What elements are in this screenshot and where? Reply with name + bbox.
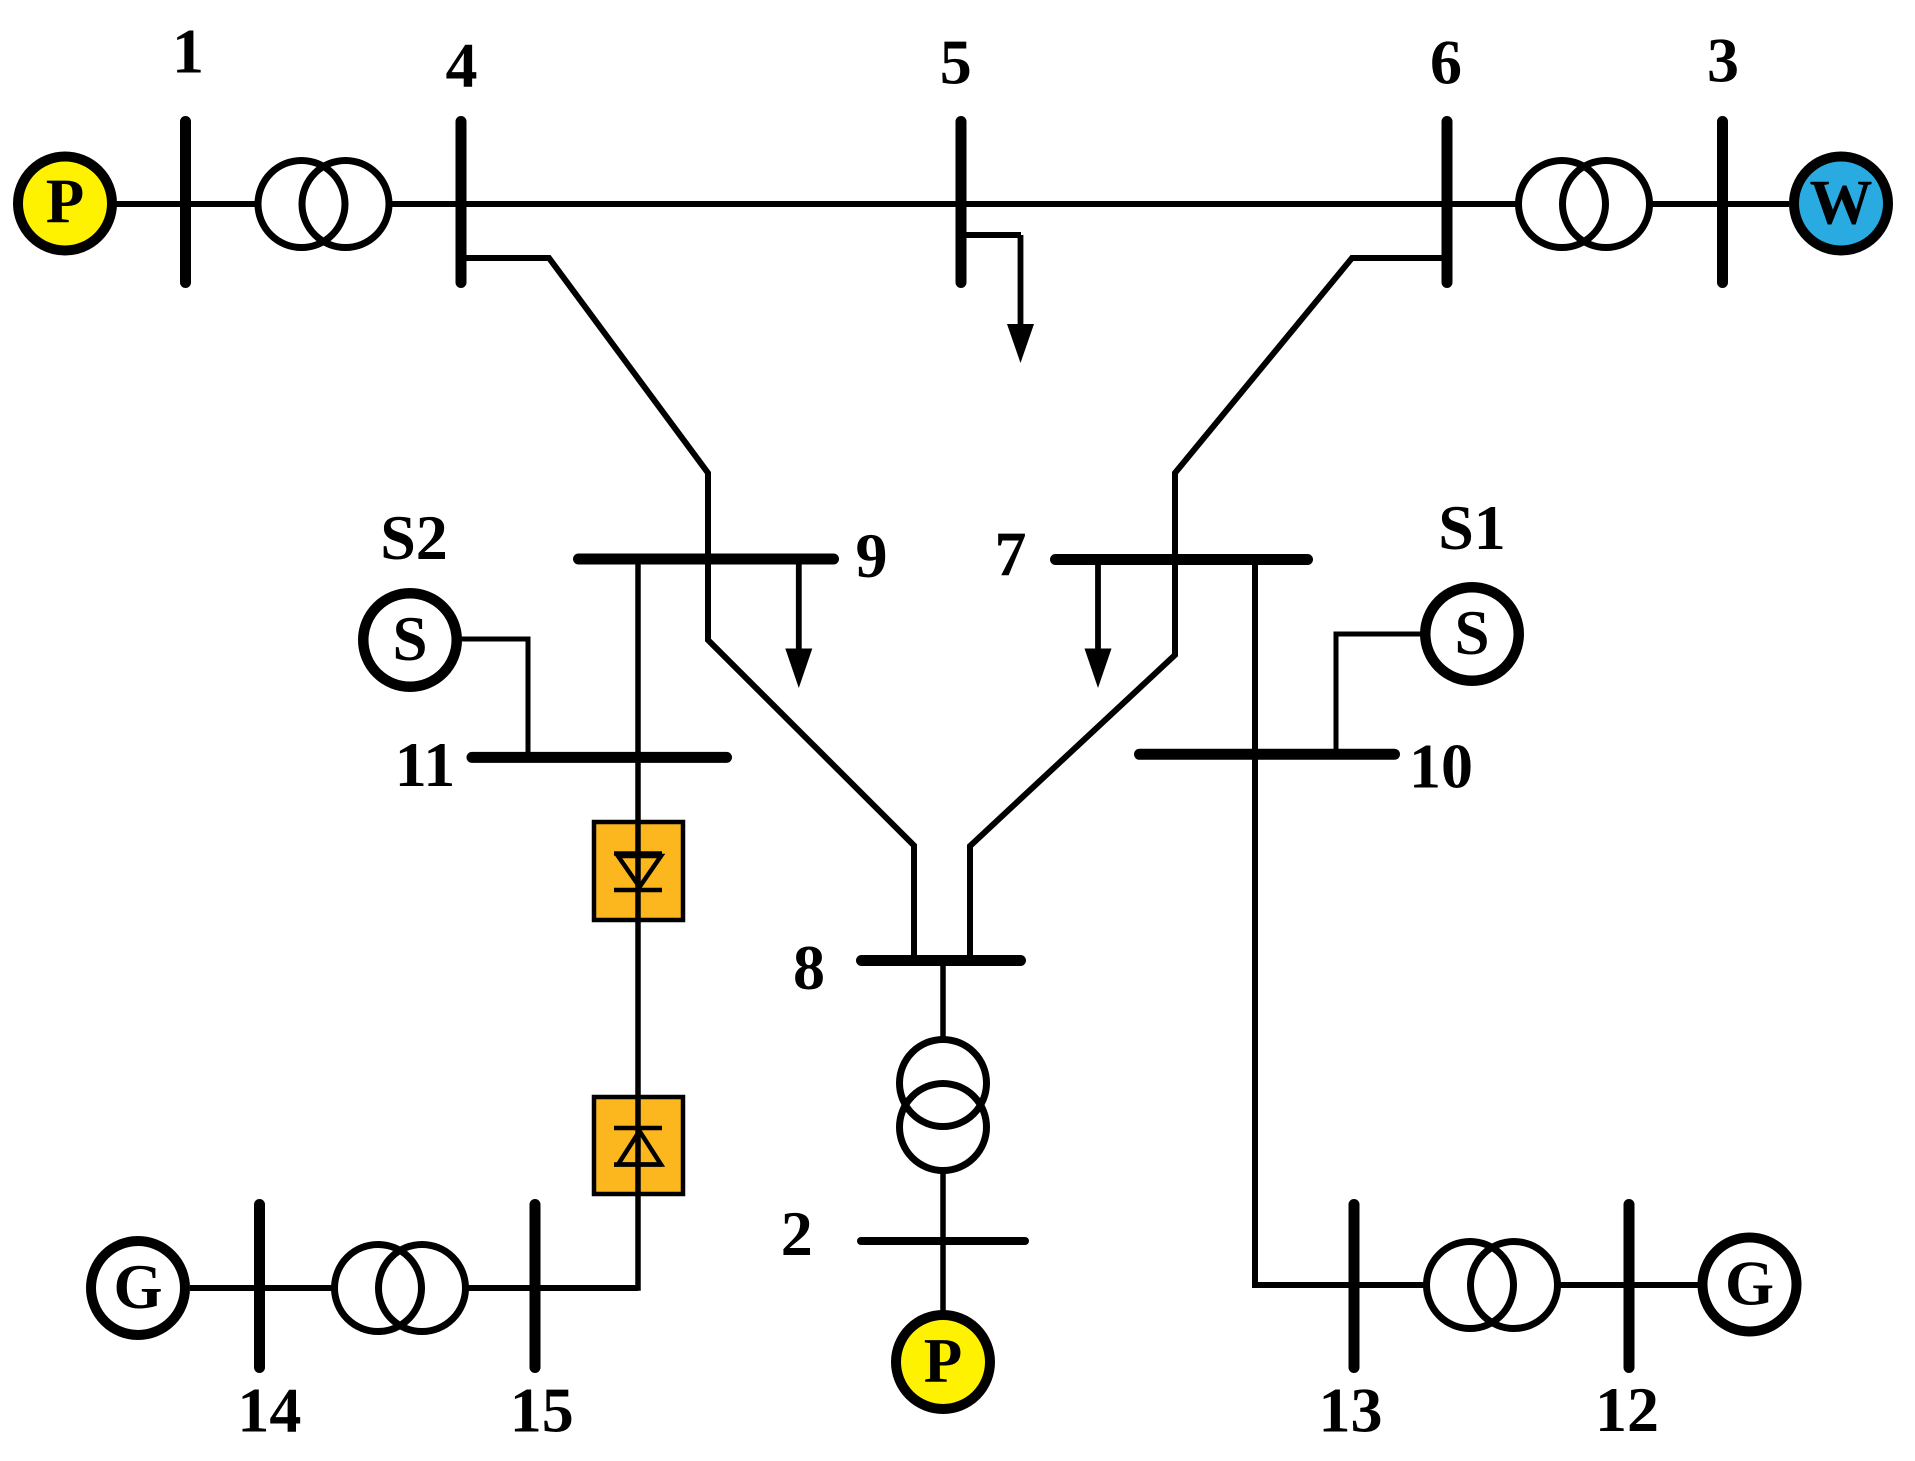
wire bottom-left G-14-15-corner	[190, 1285, 638, 1291]
wire S2 to bus11	[456, 639, 528, 757]
orange converter box 1 (inverter, arrow down)	[594, 822, 683, 920]
wire line 6-7: jog from bus6, diagonal to bus7, vertical through bus7, diagonal to bus8	[970, 258, 1447, 958]
svg-text:14: 14	[237, 1375, 301, 1446]
orange converter box 2 (rectifier, arrow up)	[594, 1097, 683, 1194]
bus 13	[1349, 1205, 1360, 1368]
bus 8	[862, 955, 1021, 966]
bus 11	[472, 752, 727, 763]
wire S1 to bus10	[1336, 634, 1425, 754]
svg-text:6: 6	[1430, 27, 1462, 98]
condenser S1 circle	[1425, 587, 1519, 681]
svg-text:1: 1	[172, 16, 204, 87]
svg-text:5: 5	[940, 27, 972, 98]
transformer T1-4	[258, 161, 345, 248]
bus 1	[180, 122, 191, 283]
svg-text:S2: S2	[380, 502, 448, 573]
thyristor symbol in box 2 (pointing up)	[614, 1128, 662, 1165]
svg-text:9: 9	[856, 520, 888, 591]
bus 7	[1056, 554, 1308, 565]
svg-text:11: 11	[395, 729, 455, 800]
load arrow at bus9	[796, 559, 802, 649]
svg-text:S: S	[392, 604, 427, 674]
svg-text:G: G	[1725, 1249, 1774, 1319]
svg-text:P: P	[924, 1326, 962, 1396]
bus 4	[456, 122, 467, 283]
svg-text:4: 4	[446, 30, 478, 101]
bus 9	[579, 554, 834, 565]
load arrow at bus7	[1095, 559, 1101, 649]
svg-text:S1: S1	[1438, 492, 1506, 563]
bus 6	[1442, 122, 1453, 283]
wire vertical 7-10-13	[1255, 559, 1698, 1285]
load arrow at bus5	[961, 232, 1021, 238]
svg-text:P: P	[46, 167, 84, 237]
svg-text:13: 13	[1319, 1375, 1383, 1446]
bus 15	[530, 1205, 541, 1368]
transformer T6-3	[1519, 161, 1606, 248]
bus 10	[1140, 749, 1395, 760]
svg-text:10: 10	[1409, 731, 1473, 802]
wire bus8-transformer-bus2-P	[940, 960, 946, 1241]
svg-text:8: 8	[793, 932, 825, 1003]
bus 14	[254, 1205, 265, 1368]
bus 5	[956, 122, 967, 283]
bus 3	[1717, 122, 1728, 283]
condenser S2 circle	[363, 593, 457, 687]
transformer T13-12	[1427, 1242, 1514, 1329]
generator G left	[91, 1241, 185, 1335]
svg-text:G: G	[113, 1252, 162, 1322]
svg-text:15: 15	[510, 1375, 574, 1446]
svg-text:S: S	[1454, 598, 1489, 668]
svg-text:W: W	[1810, 168, 1873, 238]
bus 12	[1624, 1205, 1635, 1368]
bus 2	[861, 1237, 1025, 1245]
thyristor symbol in box 1 (pointing down)	[614, 854, 662, 891]
generator P1 (yellow)	[18, 157, 112, 251]
svg-text:2: 2	[781, 1198, 813, 1269]
svg-text:3: 3	[1707, 25, 1739, 96]
transformer T14-15	[335, 1245, 422, 1332]
generator P2 (yellow, bottom)	[896, 1315, 990, 1409]
wire DC link 9-11-box1-box2-15	[534, 559, 638, 1288]
generator W (blue wind)	[1794, 157, 1888, 251]
svg-text:12: 12	[1595, 1374, 1659, 1445]
wire top main line bus1-bus4-bus5-bus6-bus3	[112, 201, 1789, 207]
wire line 4-9: jog from bus4, diagonal to bus9, vertical through bus9	[461, 258, 914, 958]
svg-text:7: 7	[995, 519, 1027, 590]
generator G right	[1703, 1238, 1797, 1332]
transformer T8-2 (vertical)	[900, 1040, 987, 1127]
